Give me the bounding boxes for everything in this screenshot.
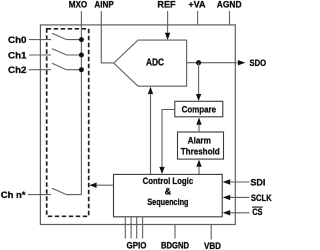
wire Ch1 input	[29, 54, 51, 56]
arrow CS into Control	[223, 210, 231, 215]
wire Ch2 input	[29, 69, 51, 71]
svg-text:Ch n*: Ch n*	[1, 190, 26, 201]
wire Ch0 input	[29, 39, 51, 41]
svg-text:Threshold: Threshold	[181, 146, 220, 157]
svg-text:&: &	[165, 186, 172, 196]
arrow into Compare top	[196, 94, 201, 101]
svg-text:SCLK: SCLK	[251, 193, 272, 204]
svg-text:GPIO: GPIO	[127, 241, 147, 250]
node SDO junction	[196, 60, 201, 65]
svg-text:Ch2: Ch2	[8, 65, 27, 76]
switch Ch1 arm	[52, 49, 81, 55]
wire CS	[230, 212, 250, 214]
block Control Logic and Sequencing	[114, 174, 223, 216]
svg-text:+VA: +VA	[188, 0, 205, 10]
op-amp ADC block	[114, 40, 187, 86]
wire Compare feedback to Control	[162, 110, 175, 168]
wire ADC control	[150, 94, 152, 174]
arrow into ADC bottom	[148, 87, 153, 95]
wire REF down	[167, 11, 169, 33]
wire BDGND	[174, 225, 176, 239]
wire SDI	[230, 181, 250, 183]
arrow SDI into Control	[223, 179, 231, 184]
wire node to Compare	[198, 63, 200, 95]
svg-text:REF: REF	[157, 0, 175, 10]
outer device box	[40, 25, 235, 225]
svg-text:Control Logic: Control Logic	[143, 176, 194, 186]
arrow into Control top	[159, 167, 164, 174]
switch Ch0 arm	[52, 33, 81, 39]
arrow REF into ADC	[165, 33, 170, 40]
arrow into mux box	[89, 183, 96, 188]
svg-text:MXO: MXO	[69, 0, 88, 10]
svg-text:CS: CS	[252, 207, 262, 218]
svg-text:Alarm: Alarm	[188, 135, 211, 146]
wire Alarm to Compare	[198, 125, 200, 132]
svg-text:Compare: Compare	[182, 105, 216, 116]
svg-text:VBD: VBD	[204, 241, 221, 250]
svg-text:AINP: AINP	[94, 0, 114, 10]
svg-text:SDI: SDI	[250, 178, 265, 189]
wire MXO bus vertical	[80, 11, 82, 195]
switch Ch n* arm	[52, 188, 81, 194]
wire mux select	[97, 184, 114, 186]
svg-text:BDGND: BDGND	[161, 241, 189, 250]
svg-text:AGND: AGND	[217, 0, 242, 10]
arrow into Compare bottom	[196, 118, 201, 125]
mux dashed box	[47, 29, 89, 217]
wire +VA down	[197, 11, 199, 25]
svg-text:ADC: ADC	[146, 58, 164, 69]
svg-text:Ch1: Ch1	[8, 51, 27, 62]
node Ch0 junction	[79, 37, 84, 42]
arrow SDO out	[238, 60, 246, 65]
arrow into Alarm bottom	[196, 160, 201, 167]
wire GPIO lines	[125, 217, 142, 239]
block Alarm Threshold	[178, 132, 224, 159]
block Compare	[175, 101, 223, 117]
switch Ch2 arm	[52, 63, 81, 69]
wire Control to Alarm	[198, 167, 200, 174]
wire ADC output to node	[187, 62, 238, 64]
wire VBD	[210, 225, 212, 240]
wire SCLK	[230, 196, 250, 198]
svg-text:Sequencing: Sequencing	[147, 197, 188, 207]
arrow SCLK into Control	[223, 195, 231, 200]
svg-text:Ch0: Ch0	[8, 35, 27, 46]
node Ch2 junction	[79, 67, 84, 72]
wire AINP down and into ADC	[101, 11, 113, 63]
wire Ch n* input	[28, 194, 51, 196]
wire AGND down	[229, 11, 231, 25]
node Ch1 junction	[79, 53, 84, 58]
svg-text:SDO: SDO	[250, 58, 267, 69]
